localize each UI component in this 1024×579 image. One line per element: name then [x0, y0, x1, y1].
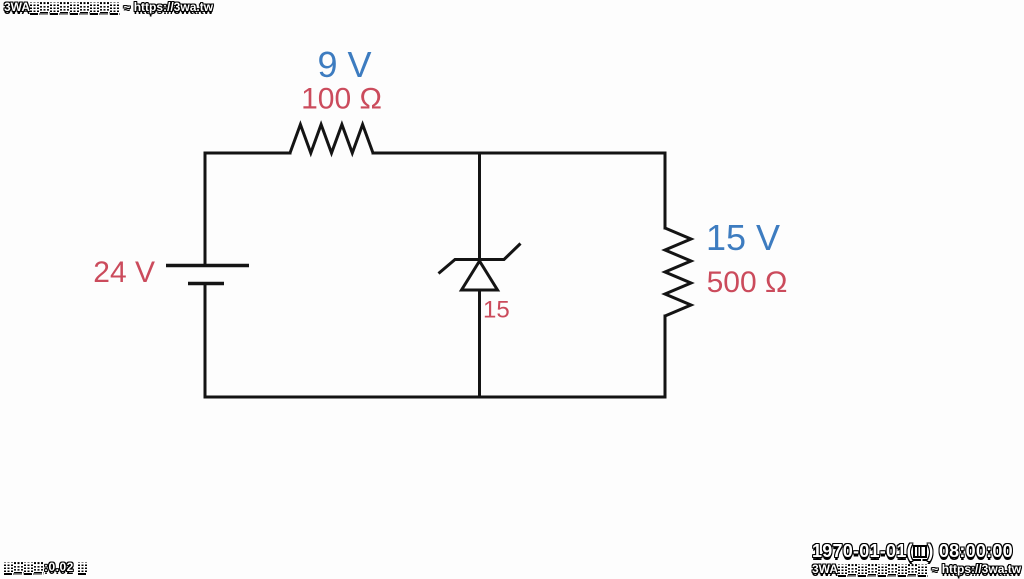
wire top-right segment	[373, 152, 665, 155]
battery V1 24V positive plate	[166, 264, 249, 268]
wire top-left segment	[205, 152, 290, 155]
wire middle lower segment	[478, 290, 481, 397]
svg-text:15: 15	[483, 297, 510, 324]
wire left upper segment	[204, 153, 207, 264]
svg-text:100 Ω: 100 Ω	[301, 83, 382, 116]
zener diode D1 cathode bar with bent ends	[439, 244, 521, 274]
wire right upper segment	[664, 153, 667, 228]
wire middle upper segment	[478, 153, 481, 258]
resistor R2 (500 ohm) zigzag	[665, 228, 691, 316]
wire right lower segment	[664, 316, 667, 397]
svg-text:24 V: 24 V	[93, 256, 155, 289]
watermark bottom-left: load time text (doubled overlay text)	[4, 563, 88, 577]
wire left lower segment	[204, 285, 207, 397]
svg-text:9 V: 9 V	[317, 44, 371, 85]
battery V1 24V negative plate	[188, 282, 224, 286]
watermark bottom-right: 3WA site watermark (doubled overlay text)	[812, 565, 1021, 579]
watermark top-left: 3WA site watermark (doubled overlay text)	[4, 3, 213, 17]
zener diode D1 anode triangle	[462, 261, 498, 290]
timestamp bottom-right: 1970-01-01 (Thu) 08:00:00 (doubled overlay text)	[812, 544, 1013, 565]
resistor R1 (100 ohm) zigzag	[290, 125, 373, 154]
svg-text:15 V: 15 V	[706, 217, 780, 258]
wire bottom segment	[205, 396, 665, 399]
svg-text:500 Ω: 500 Ω	[707, 266, 788, 299]
